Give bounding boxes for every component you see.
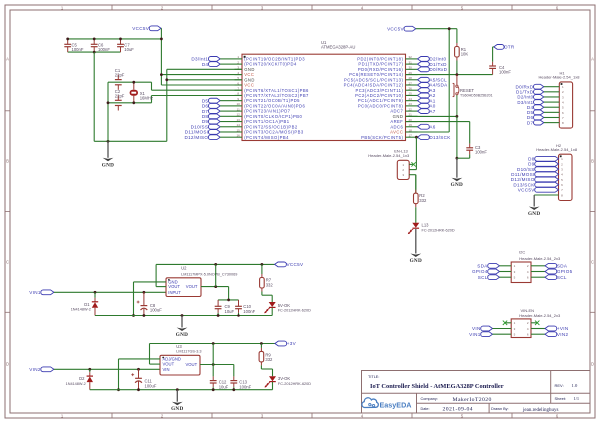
- capacitor C12 10uF: [210, 365, 229, 390]
- net flag VCC5V (H2 pin 7): [518, 187, 559, 192]
- net flag D7: [202, 109, 235, 114]
- svg-text:1/1: 1/1: [574, 396, 580, 401]
- net flag A6: [418, 124, 436, 129]
- net flag D3/Int1: [191, 57, 234, 62]
- net flag D8 (H2 pin 1): [528, 156, 558, 161]
- svg-text:REV:: REV:: [555, 383, 564, 388]
- svg-text:GPIO5: GPIO5: [557, 269, 573, 274]
- svg-text:U2: U2: [181, 266, 187, 271]
- net flag D8: [202, 114, 235, 119]
- wire U2 VOUT-left to VCC rail: [156, 264, 166, 286]
- wire RESET net: [406, 73, 493, 76]
- net flag D2/Int0: [418, 57, 447, 62]
- power flag +3V: [275, 341, 297, 346]
- net flag D9 (H2 pin 2): [528, 162, 558, 167]
- wire R7 to LED 5V-OK: [262, 295, 272, 302]
- svg-text:L13: L13: [422, 223, 430, 228]
- svg-text:PB5(SCK/PCINT5): PB5(SCK/PCINT5): [361, 135, 403, 140]
- net flag VIN2 (input): [29, 367, 54, 372]
- net flag D4 (H1 pin 5): [527, 105, 559, 110]
- svg-text:(PCINT4/MISO)PB4: (PCINT4/MISO)PB4: [244, 135, 289, 140]
- svg-text:A: A: [6, 57, 9, 62]
- capacitor C3 100nF: [457, 124, 487, 159]
- junction dots crystal: [107, 81, 136, 104]
- svg-text:100nF: 100nF: [243, 309, 255, 314]
- svg-text:VCC5V: VCC5V: [387, 26, 404, 31]
- svg-text:10: 10: [237, 102, 241, 106]
- svg-text:LM1117MPX-5.0NOPB_C730069: LM1117MPX-5.0NOPB_C730069: [181, 272, 237, 276]
- capacitor C8 100uF: [137, 292, 163, 315]
- ground GND (U2 section): [176, 316, 188, 339]
- no-connect mark VIN-EN pin1: [503, 321, 511, 325]
- capacitor C1 22pF: [115, 68, 125, 90]
- svg-text:RESET: RESET: [460, 88, 474, 93]
- svg-text:VCC5V: VCC5V: [518, 188, 535, 193]
- net flag GPIO4 (I2C left pin 3): [472, 269, 511, 274]
- svg-text:C: C: [6, 260, 9, 265]
- net flag +VIN (VIN-EN right): [531, 326, 568, 331]
- svg-text:TS60HD50B25B201: TS60HD50B25B201: [460, 94, 493, 98]
- capacitor C6 100nF: [91, 39, 111, 52]
- net flag D5: [202, 98, 235, 103]
- no-connect mark EN-L13 pin1: [411, 162, 415, 166]
- svg-text:11: 11: [237, 107, 240, 111]
- net flag A0: [418, 103, 436, 108]
- svg-text:1N4148W-2: 1N4148W-2: [66, 382, 86, 386]
- svg-text:D: D: [6, 362, 9, 367]
- net flag A3: [418, 88, 436, 93]
- svg-text:3V-OK: 3V-OK: [278, 376, 291, 381]
- svg-text:SCL: SCL: [478, 275, 488, 280]
- net flag D6: [202, 103, 235, 108]
- svg-text:332: 332: [265, 357, 273, 362]
- svg-text:SDA: SDA: [477, 264, 488, 269]
- svg-text:FC-2012HRK-620D: FC-2012HRK-620D: [422, 228, 455, 232]
- svg-text:10uF: 10uF: [219, 384, 229, 389]
- svg-text:12: 12: [237, 113, 241, 117]
- svg-text:FC-2012HRK-620D: FC-2012HRK-620D: [278, 309, 311, 313]
- capacitor C10 100nF: [235, 300, 256, 316]
- svg-text:GPIO4: GPIO4: [472, 269, 488, 274]
- net flag VIN1 (VIN-EN left): [469, 332, 511, 337]
- svg-text:5V-OK: 5V-OK: [278, 303, 291, 308]
- power flag VCC5V (top left): [132, 26, 161, 31]
- wire VCC5V vertical to MCU VCC pins: [161, 28, 242, 85]
- U1 right pin stubs and numbers: [406, 55, 418, 137]
- svg-text:+VIN: +VIN: [557, 326, 569, 331]
- resistor R1 10K: [455, 29, 469, 74]
- svg-text:GND: GND: [410, 258, 422, 264]
- svg-text:2021-09-04: 2021-09-04: [443, 407, 474, 413]
- net flag SCL (I2C left pin 5): [478, 275, 511, 280]
- wire ground rail (U3 section): [90, 388, 273, 391]
- svg-text:SDA: SDA: [557, 264, 568, 269]
- net flag D0/RxD (H1 pin 1): [516, 84, 560, 89]
- wire R9 to LED 3V-OK: [261, 369, 272, 376]
- svg-text:D12/MISO: D12/MISO: [184, 135, 208, 140]
- svg-text:100nF: 100nF: [499, 69, 511, 74]
- svg-text:A: A: [591, 57, 594, 62]
- svg-text:D13/SCK: D13/SCK: [429, 135, 451, 140]
- wire U2 GND to ground rail: [132, 282, 166, 317]
- svg-text:100nF: 100nF: [475, 149, 487, 154]
- net flag D10/SS (H2 pin 3): [517, 167, 559, 172]
- svg-text:22pF: 22pF: [115, 73, 125, 78]
- net flag D11/MOSI: [185, 130, 235, 135]
- wire U3 VOUT-left to +3V rail: [150, 344, 161, 365]
- wire D13 to EN-L13 header: [409, 136, 418, 170]
- capacitor C11 100uF: [131, 369, 157, 389]
- power flag VCC5V (above R1): [387, 26, 416, 31]
- capacitor C5 100nF: [64, 39, 84, 52]
- svg-text:D1: D1: [84, 302, 90, 307]
- svg-text:IoT Controller Shield - AtMEGA: IoT Controller Shield - AtMEGA328P Contr…: [370, 383, 504, 390]
- svg-text:jean.redelinghuys: jean.redelinghuys: [522, 408, 558, 413]
- svg-text:13: 13: [237, 118, 241, 122]
- svg-text:D0/RxD: D0/RxD: [429, 67, 447, 72]
- wire crystal left vertical: [107, 82, 109, 141]
- resistor R7 332: [260, 264, 274, 295]
- svg-text:VIN1: VIN1: [469, 332, 481, 337]
- svg-text:100uF: 100uF: [145, 383, 157, 388]
- wire GND drop from cap bank: [93, 52, 95, 141]
- svg-text:MakerIoT2020: MakerIoT2020: [453, 397, 492, 403]
- svg-text:23: 23: [409, 102, 413, 106]
- net flag D13/SCK: [418, 135, 452, 140]
- net flag D0/RxD: [418, 67, 448, 72]
- U1 left pin stubs and numbers: [235, 55, 243, 137]
- svg-text:100nF: 100nF: [98, 47, 110, 52]
- svg-text:VOUT: VOUT: [186, 362, 198, 367]
- ground GND (U3 section): [171, 390, 183, 413]
- svg-text:ATMEGA328P-AU: ATMEGA328P-AU: [321, 45, 355, 50]
- net flag D11/MOSI (H2 pin 4): [511, 172, 558, 177]
- svg-text:Drawn By:: Drawn By:: [491, 407, 509, 411]
- net flag VIN (VIN-EN left): [472, 326, 511, 331]
- svg-text:100nF: 100nF: [72, 47, 84, 52]
- svg-text:GND: GND: [528, 211, 540, 217]
- svg-text:INPUT: INPUT: [168, 290, 181, 295]
- wire XTAL2 net: [108, 96, 242, 103]
- svg-text:16MHz: 16MHz: [140, 95, 153, 100]
- svg-text:VOUT: VOUT: [168, 284, 180, 289]
- net flag D13/SCK (H2 pin 6): [513, 182, 558, 187]
- svg-text:GND: GND: [171, 406, 183, 412]
- net flag A4/SDA: [418, 83, 449, 88]
- svg-text:1N4148W-2: 1N4148W-2: [71, 308, 91, 312]
- LED 5V-OK FC-2012HRK-620D: [264, 302, 311, 316]
- net flag D9: [202, 119, 235, 124]
- svg-text:SCL: SCL: [557, 275, 567, 280]
- net flag SDA (I2C left pin 1): [477, 263, 511, 268]
- svg-text:VIN: VIN: [472, 326, 481, 331]
- EasyEDA logo: [362, 398, 412, 410]
- svg-text:GND: GND: [176, 332, 188, 338]
- net flag D1/TxD: [418, 62, 448, 67]
- svg-text:26: 26: [409, 87, 413, 91]
- ground GND (H2): [528, 195, 540, 217]
- svg-text:10uF: 10uF: [124, 47, 134, 52]
- wire AREF to C3: [406, 122, 470, 124]
- net flag A5/SCL: [418, 77, 448, 82]
- title block: [362, 371, 591, 414]
- ground GND (right of MCU): [451, 158, 463, 188]
- wire XTAL1 net: [108, 82, 242, 90]
- svg-text:D4: D4: [202, 62, 209, 67]
- net flag D4: [202, 62, 235, 67]
- svg-text:C: C: [591, 260, 594, 265]
- svg-text:D: D: [591, 362, 594, 367]
- svg-text:TITLE:: TITLE:: [368, 375, 379, 379]
- svg-text:GND: GND: [451, 182, 463, 188]
- svg-text:15: 15: [237, 128, 241, 132]
- diode D2 1N4148W-2: [66, 369, 93, 389]
- pushbutton RESET TS60HD50B25B201: [453, 75, 493, 117]
- svg-text:16: 16: [237, 134, 241, 138]
- svg-text:U3: U3: [176, 344, 182, 349]
- net flag D1/TxD (H1 pin 2): [516, 89, 559, 94]
- svg-text:Header-Male-2.54_1x3: Header-Male-2.54_1x3: [368, 153, 410, 158]
- header H1 Header-Male-2.54_1x8: [539, 70, 581, 128]
- svg-text:22pF: 22pF: [115, 94, 125, 99]
- net flag DTR: [494, 45, 515, 50]
- svg-text:30: 30: [409, 66, 413, 70]
- diode D1 1N4148W-2: [71, 292, 99, 315]
- net flag GPIO5 (I2C right pin 4): [531, 269, 573, 274]
- net flag SDA (I2C right pin 2): [531, 263, 568, 268]
- net flag VIN2 (VIN-EN right): [531, 332, 568, 337]
- svg-text:A7: A7: [429, 109, 435, 114]
- wire cap bank top rail: [68, 38, 162, 40]
- header VIN-EN Header-Male-2.54_2x3: [511, 308, 561, 338]
- IC U1 ATMEGA328P-AU: [242, 40, 406, 141]
- svg-text:14: 14: [237, 123, 241, 127]
- wire H2 pin8 to ground: [534, 194, 558, 196]
- ground GND (crystal section): [102, 141, 114, 168]
- wire VIN1 to U2 INPUT: [54, 291, 166, 294]
- net flag D12/MISO (H2 pin 5): [511, 177, 559, 182]
- svg-text:100nF: 100nF: [239, 384, 251, 389]
- net flag SCL (I2C right pin 6): [531, 275, 567, 280]
- net flag D6 (H1 pin 7): [527, 115, 559, 120]
- svg-text:22: 22: [409, 107, 413, 111]
- wire MCU GND to ground: [406, 115, 459, 160]
- svg-text:VIN2: VIN2: [29, 367, 41, 372]
- wire VCC5V to R1 and AVCC: [406, 27, 457, 132]
- svg-text:32: 32: [409, 55, 413, 59]
- svg-text:VIN: VIN: [163, 367, 170, 372]
- svg-text:332: 332: [419, 198, 427, 203]
- svg-text:31: 31: [409, 60, 413, 64]
- svg-text:Header-Male-2.54_2x3: Header-Male-2.54_2x3: [519, 313, 561, 318]
- svg-text:B: B: [6, 159, 9, 164]
- svg-text:DTR: DTR: [504, 45, 515, 50]
- svg-text:EasyEDA: EasyEDA: [380, 401, 412, 410]
- svg-text:10uF: 10uF: [225, 309, 235, 314]
- wire U3 ADJ/GND to ground rail: [117, 359, 160, 391]
- net flag D2/Int0 (H1 pin 3): [517, 95, 559, 100]
- net flag D7 (H1 pin 8): [527, 120, 559, 125]
- svg-text:I2C: I2C: [519, 249, 525, 254]
- svg-text:Sheet:: Sheet:: [555, 396, 567, 401]
- header H2 Header-Male-2.54_1x8: [536, 143, 578, 201]
- ground GND (L13): [410, 229, 422, 264]
- net flag VIN1 (input): [29, 290, 54, 295]
- wire VCC5V rail (U2): [156, 263, 275, 266]
- resistor R9 332: [259, 344, 273, 370]
- svg-text:FC-2012HRK-620D: FC-2012HRK-620D: [278, 382, 311, 386]
- LED L13 FC-2012HRK-620D: [408, 223, 455, 235]
- header I2C Header-Male-2.54_2x3: [511, 249, 561, 282]
- svg-text:100uF: 100uF: [150, 308, 162, 313]
- IC U2 LM1117MPX-5.0: [166, 266, 237, 297]
- svg-text:19: 19: [409, 123, 413, 127]
- net flag A7: [418, 109, 436, 114]
- svg-text:27: 27: [409, 81, 413, 85]
- svg-text:10K: 10K: [461, 52, 469, 57]
- svg-text:A6: A6: [429, 124, 435, 129]
- svg-text:Header-Male-2.54_2x3: Header-Male-2.54_2x3: [519, 256, 561, 261]
- svg-text:17: 17: [409, 134, 413, 138]
- svg-text:GND: GND: [102, 162, 114, 168]
- capacitor C7 10uF: [117, 39, 134, 52]
- net flag A2: [418, 93, 436, 98]
- svg-text:28: 28: [409, 76, 413, 80]
- net flag D3/Int1 (H1 pin 4): [517, 100, 559, 105]
- capacitor C9 10uF: [215, 300, 235, 316]
- wire cap bank bottom rail: [68, 51, 121, 53]
- wire VIN2 to U3 VIN: [54, 368, 160, 371]
- svg-text:24: 24: [409, 97, 413, 101]
- svg-text:1.0: 1.0: [572, 383, 578, 388]
- power flag VCC5V (U2 output): [275, 262, 304, 267]
- net flag D5 (H1 pin 6): [527, 110, 559, 115]
- svg-text:Company:: Company:: [421, 397, 438, 401]
- no-connect mark VIN-EN pin2: [531, 321, 539, 325]
- crystal X1 16MHz: [130, 82, 153, 103]
- net flag D12/MISO: [184, 135, 234, 140]
- svg-text:LM1117GS-3.3: LM1117GS-3.3: [176, 350, 201, 354]
- wire GND vertical to MCU GND pins: [167, 69, 242, 141]
- net flag D10/SS: [191, 124, 235, 129]
- net flag A1: [418, 98, 436, 103]
- junction dots cap bank: [66, 38, 163, 77]
- capacitor C4 100nF: [489, 47, 511, 75]
- wire U3 VOUT-right to caps: [200, 344, 234, 366]
- svg-text:B: B: [591, 159, 594, 164]
- wire U2 VOUT-right to caps: [201, 264, 239, 301]
- svg-text:+3V: +3V: [287, 341, 297, 346]
- IC U3 LM1117GS-3.3: [160, 344, 201, 375]
- wire +3V rail: [150, 342, 275, 345]
- svg-text:332: 332: [266, 282, 274, 287]
- svg-text:VCC5V: VCC5V: [287, 262, 304, 267]
- svg-text:Date:: Date:: [421, 407, 430, 411]
- svg-text:D2: D2: [79, 376, 85, 381]
- svg-text:VCC5V: VCC5V: [132, 26, 149, 31]
- capacitor C13 100nF: [230, 365, 251, 390]
- svg-text:Header-Male-2.54_1x8: Header-Male-2.54_1x8: [539, 75, 581, 80]
- wire GND loop horizontal: [94, 140, 167, 142]
- svg-text:25: 25: [409, 92, 413, 96]
- svg-text:VIN2: VIN2: [557, 332, 569, 337]
- resistor R2 332: [414, 175, 427, 223]
- wire EN-L13 pin3 to R2: [415, 175, 417, 194]
- svg-text:VIN1: VIN1: [29, 290, 41, 295]
- svg-text:D7: D7: [527, 120, 534, 125]
- header EN-L13 Header-Male-2.54_1x3: [368, 149, 416, 180]
- wire ground rail (U2 section): [95, 314, 272, 317]
- svg-text:VOUT: VOUT: [186, 284, 198, 289]
- svg-text:Header-Male-2.54_1x8: Header-Male-2.54_1x8: [536, 147, 578, 152]
- capacitor C2 22pF: [115, 89, 125, 111]
- LED 3V-OK FC-2012HRK-620D: [265, 376, 312, 390]
